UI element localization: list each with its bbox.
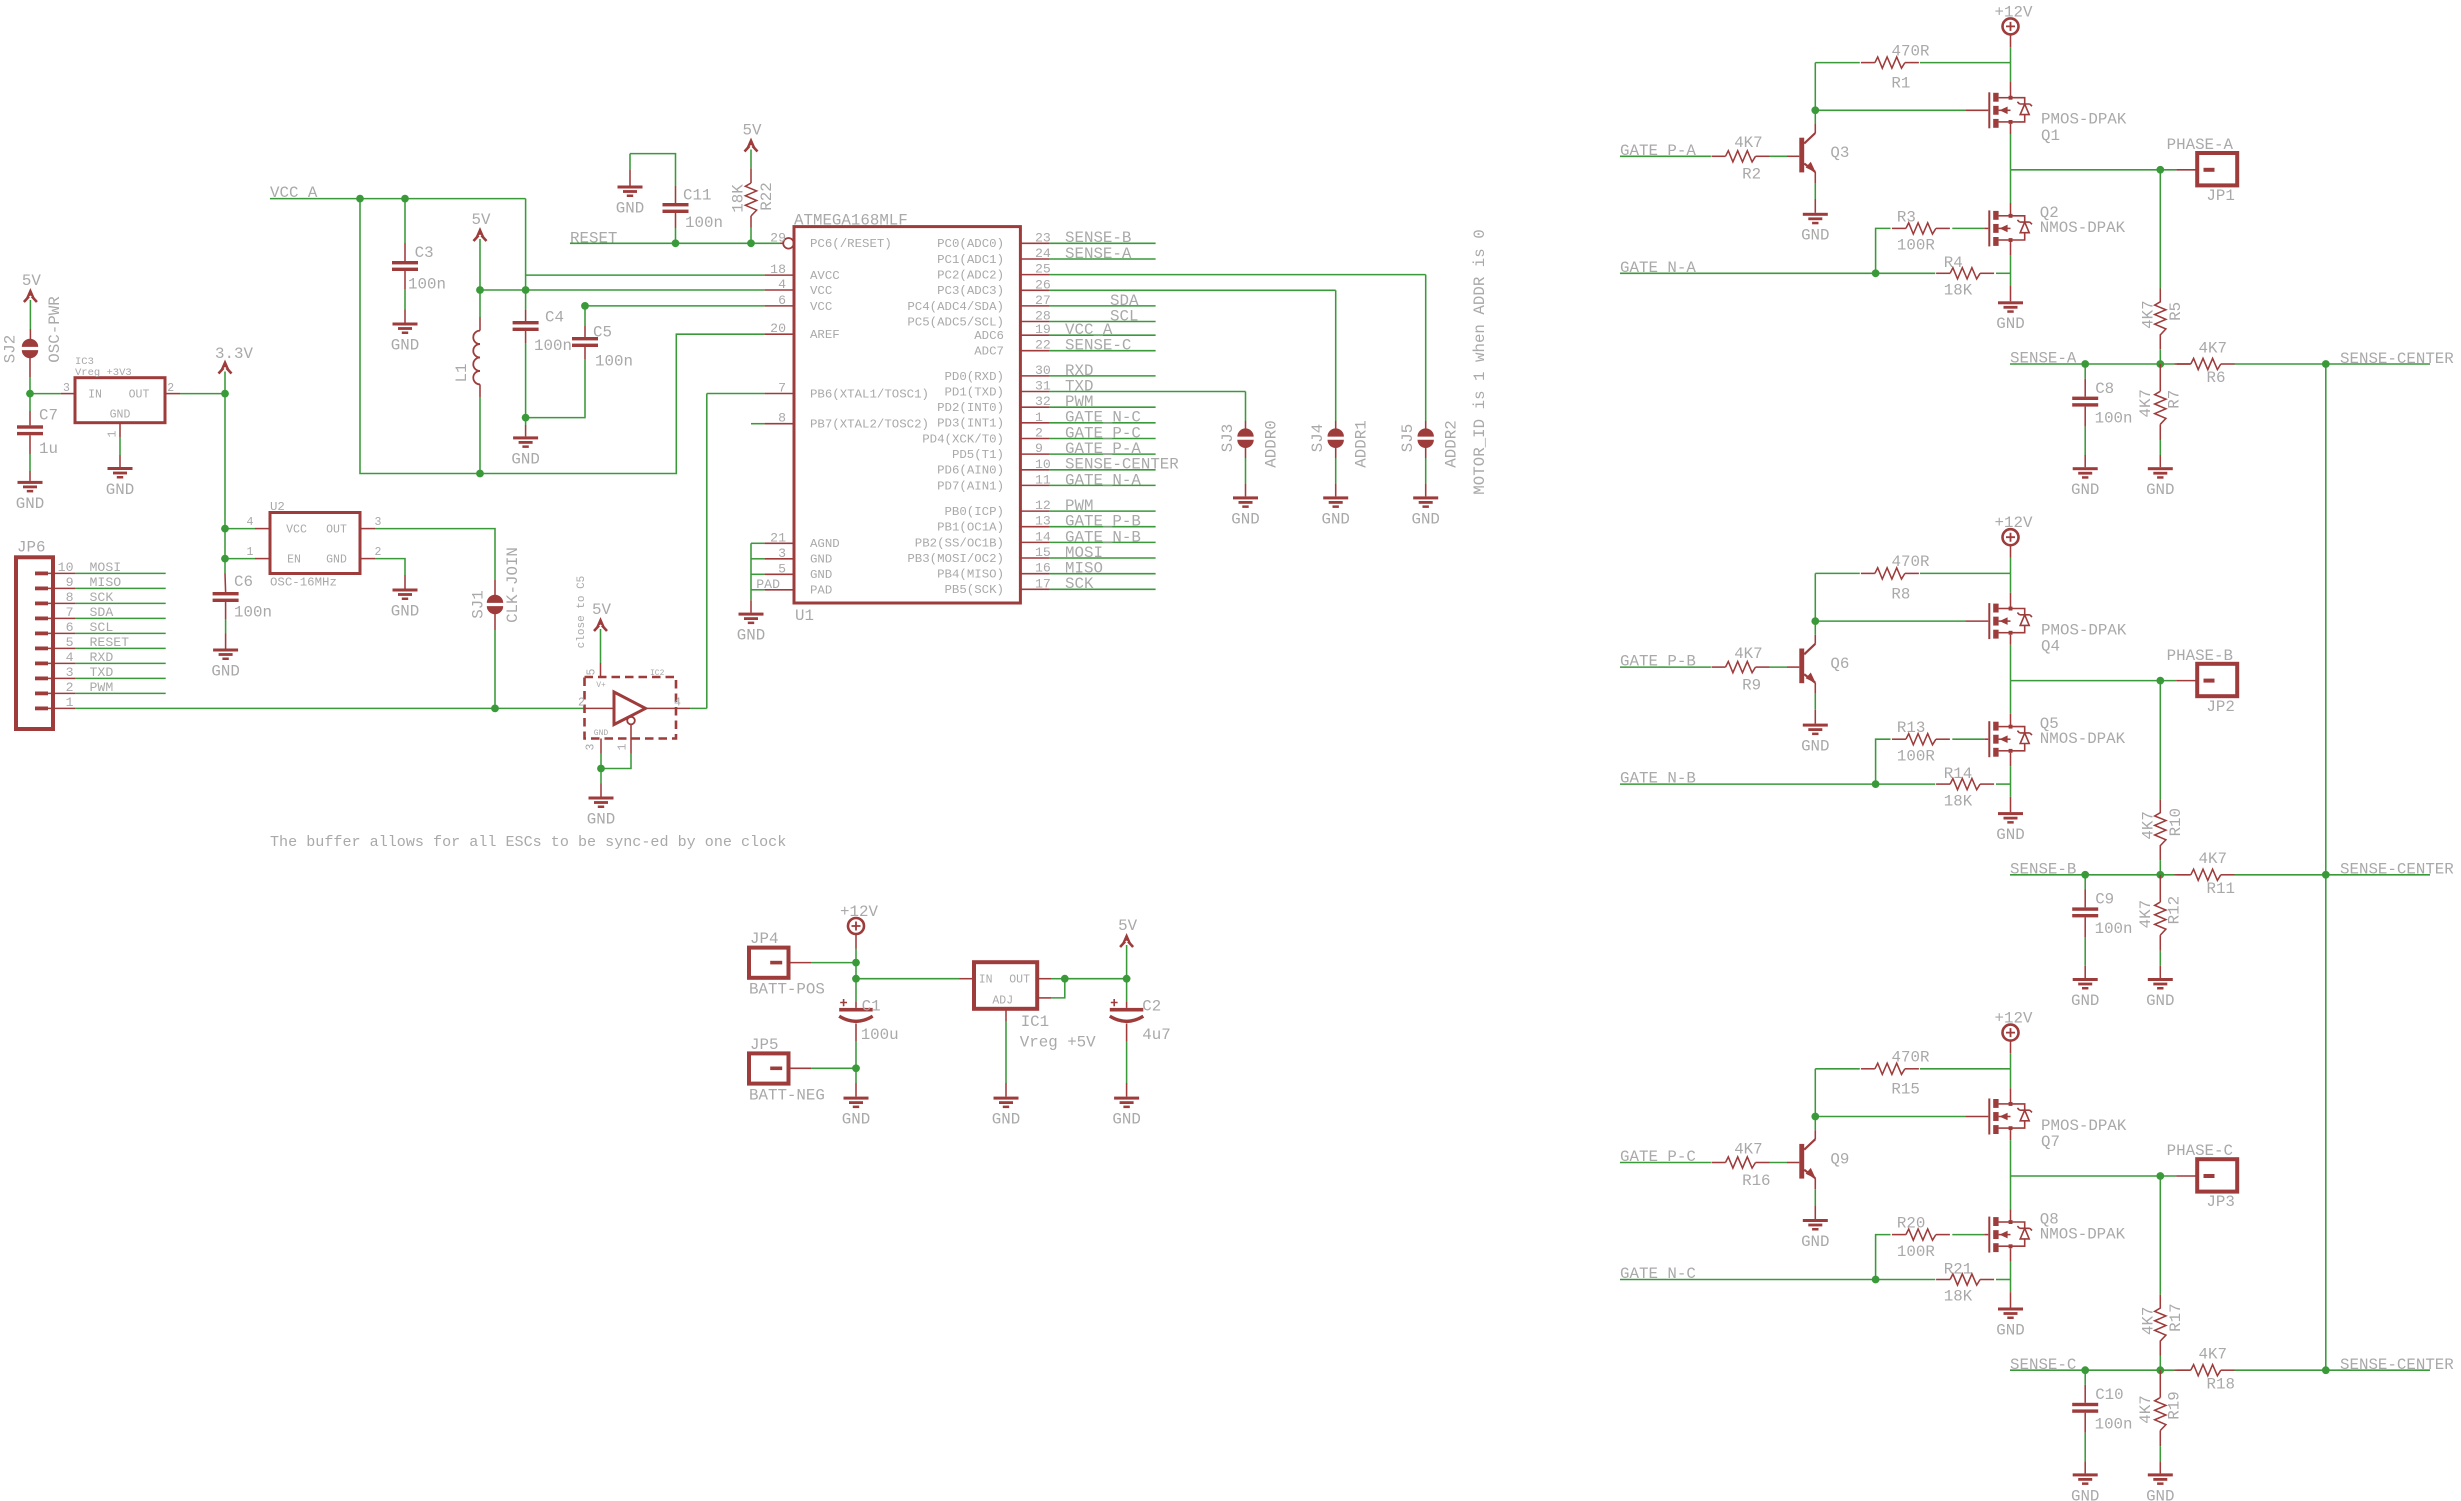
- svg-text:R3: R3: [1897, 208, 1916, 226]
- resistor R13 100R: [1906, 734, 1936, 745]
- wire R7 to ground: [2159, 424, 2161, 440]
- svg-text:GND: GND: [842, 1110, 870, 1128]
- wire R22 to RESET node: [750, 216, 752, 228]
- pin 23 stub: [1020, 242, 1049, 244]
- wire node to Q7 gate: [1815, 1116, 1965, 1118]
- solder jumper SJ3 ADDR0: [1237, 428, 1253, 436]
- wire 3.3V node to EN node: [224, 529, 226, 559]
- wire GATE_P-A to R2: [1620, 155, 1711, 157]
- wire IC1 OUT: [1037, 978, 1051, 980]
- svg-text:4: 4: [778, 277, 786, 292]
- pin 29 inverted circle: [783, 238, 794, 249]
- svg-text:4K7: 4K7: [2140, 811, 2158, 839]
- svg-text:PB1(OC1A): PB1(OC1A): [937, 521, 1004, 535]
- wire RESET net: [570, 242, 780, 244]
- wire pin 2 GATE_P-C: [1050, 438, 1156, 440]
- svg-text:PC2(ADC2): PC2(ADC2): [937, 269, 1004, 283]
- connector JP6: [16, 557, 53, 729]
- svg-text:The buffer allows for all ESCs: The buffer allows for all ESCs to be syn…: [270, 833, 786, 851]
- mosfet Q1 PMOS-DPAK: [1988, 92, 1990, 128]
- svg-text:BATT-NEG: BATT-NEG: [749, 1086, 825, 1104]
- svg-text:4K7: 4K7: [2137, 1395, 2155, 1423]
- wire R3 to Q2 gate: [1952, 227, 1984, 229]
- svg-text:SJ3: SJ3: [1219, 424, 1237, 452]
- pin 6 VCC stub: [765, 305, 794, 307]
- svg-text:EN: EN: [287, 554, 301, 567]
- ground C1: [844, 1097, 869, 1100]
- svg-text:R20: R20: [1897, 1215, 1925, 1233]
- svg-text:GND: GND: [1801, 227, 1829, 245]
- svg-text:SENSE-B: SENSE-B: [2010, 860, 2076, 878]
- svg-text:100n: 100n: [234, 603, 272, 621]
- resistor R16 4K7: [1726, 1157, 1756, 1168]
- capacitor C8 100n: [2084, 364, 2086, 379]
- svg-text:R4: R4: [1944, 254, 1963, 272]
- svg-text:2: 2: [1035, 425, 1043, 440]
- node R22/RESET: [747, 239, 755, 247]
- svg-text:R14: R14: [1944, 765, 1972, 783]
- wire GATE_N-A row: [1620, 272, 1935, 274]
- resistor R7 4K7 lower divider: [2159, 364, 2161, 391]
- svg-text:NMOS-DPAK: NMOS-DPAK: [2040, 730, 2126, 748]
- svg-text:OSC-16MHz: OSC-16MHz: [270, 576, 337, 590]
- wire Q2 drain to phase: [2010, 170, 2012, 203]
- wire IC1 GND pin to ground: [1005, 1009, 1007, 1022]
- wire C4 node to ground: [525, 418, 527, 425]
- connector JP4 BATT-POS: [749, 948, 789, 978]
- ground Q2: [1998, 301, 2023, 304]
- wire VCC_A down to AVCC: [525, 199, 527, 290]
- svg-text:PHASE-C: PHASE-C: [2167, 1142, 2233, 1160]
- transistor Q6: [1799, 649, 1804, 684]
- supply +12V (PHASE-A): [2003, 18, 2019, 34]
- wire R9 to base: [1769, 666, 1787, 668]
- svg-text:VCC: VCC: [286, 524, 307, 537]
- svg-text:470R: 470R: [1892, 553, 1930, 571]
- wire phase row PHASE-B: [2011, 680, 2161, 682]
- svg-text:PD3(INT1): PD3(INT1): [937, 417, 1004, 431]
- svg-text:17: 17: [1035, 576, 1051, 591]
- svg-text:GND: GND: [2146, 481, 2174, 499]
- svg-text:PC6(/RESET): PC6(/RESET): [810, 237, 892, 251]
- net label SENSE-CENTER (PHASE-C): [2326, 1369, 2430, 1371]
- capacitor C1 100u: [855, 979, 857, 1002]
- wire pin 1 GATE_N-C: [1050, 422, 1156, 424]
- wire C8 to ground: [2084, 407, 2086, 427]
- svg-text:PMOS-DPAK: PMOS-DPAK: [2041, 111, 2127, 129]
- wire Q4 drain to phase node: [2010, 635, 2012, 645]
- svg-text:SENSE-C: SENSE-C: [2010, 1356, 2076, 1374]
- resistor R21 18K: [1950, 1274, 1980, 1285]
- wire JP6 pin 3 TXD: [48, 677, 75, 679]
- svg-text:SENSE-CENTER: SENSE-CENTER: [2340, 350, 2454, 368]
- wire pin 10 SENSE-CENTER: [1050, 469, 1156, 471]
- svg-text:5V: 5V: [743, 121, 762, 139]
- pin 24 stub: [1020, 258, 1049, 260]
- wire +12V to JP4 node: [855, 934, 857, 949]
- svg-text:SJ4: SJ4: [1309, 424, 1327, 452]
- node OUT/ADJ: [1061, 975, 1069, 983]
- svg-text:SENSE-A: SENSE-A: [1065, 245, 1132, 263]
- svg-text:GND: GND: [2071, 481, 2099, 499]
- svg-text:PAD: PAD: [756, 577, 780, 592]
- supply 5V (OSC-PWR): [26, 288, 36, 299]
- svg-text:1: 1: [107, 430, 120, 437]
- wire pin 28 SCL: [1050, 321, 1156, 323]
- svg-text:100R: 100R: [1897, 237, 1935, 255]
- wire R18 to SENSE-CENTER: [2235, 1369, 2326, 1371]
- supply 5V (buffer): [596, 617, 606, 628]
- wire C6 to ground: [225, 602, 227, 619]
- svg-text:100R: 100R: [1897, 747, 1935, 765]
- pin 27 stub: [1020, 305, 1049, 307]
- svg-text:ADC7: ADC7: [974, 345, 1004, 359]
- resistor R4 18K: [1950, 268, 1980, 279]
- wire AVCC to pin 18: [526, 274, 765, 276]
- ground buffer: [589, 797, 614, 800]
- svg-text:JP6: JP6: [17, 538, 45, 556]
- svg-text:21: 21: [770, 530, 786, 545]
- wire to U2 pin 1: [225, 558, 255, 560]
- svg-text:C2: C2: [1142, 997, 1161, 1015]
- wire C2 to ground: [1126, 1024, 1128, 1042]
- pin 14 stub: [1020, 541, 1049, 543]
- wire SENSE-CENTER vertical bus: [2325, 364, 2327, 1370]
- svg-text:PB7(XTAL2/TOSC2): PB7(XTAL2/TOSC2): [810, 418, 929, 432]
- resistor R12 4K7 lower divider: [2159, 875, 2161, 902]
- svg-text:GND: GND: [326, 554, 347, 567]
- capacitor C4: [525, 290, 527, 310]
- svg-text:470R: 470R: [1892, 42, 1930, 60]
- svg-text:18: 18: [770, 262, 786, 277]
- net label SENSE-CENTER (PHASE-A): [2326, 363, 2430, 365]
- svg-text:C1: C1: [862, 997, 881, 1015]
- wire R13 to Q5 gate: [1952, 738, 1984, 740]
- wire buffer pin 1 feedback: [630, 724, 632, 753]
- svg-text:PHASE-B: PHASE-B: [2167, 647, 2233, 665]
- svg-text:V+: V+: [596, 681, 606, 690]
- svg-text:CLK-JOIN: CLK-JOIN: [504, 547, 522, 623]
- svg-text:SCK: SCK: [1065, 575, 1094, 593]
- pin 25 stub: [1020, 274, 1049, 276]
- svg-text:R15: R15: [1891, 1081, 1919, 1099]
- svg-text:C3: C3: [415, 244, 434, 262]
- svg-text:PD0(RXD): PD0(RXD): [945, 370, 1005, 384]
- svg-text:PB6(XTAL1/TOSC1): PB6(XTAL1/TOSC1): [810, 387, 929, 401]
- svg-text:PD4(XCK/T0): PD4(XCK/T0): [922, 432, 1004, 446]
- wire JP4 to node: [789, 962, 812, 964]
- node 3.3V: [221, 390, 229, 398]
- wire emitter to ground: [1814, 1178, 1816, 1189]
- wire Q5 source to ground: [2010, 753, 2012, 766]
- svg-text:JP3: JP3: [2206, 1193, 2234, 1211]
- svg-text:PB5(SCK): PB5(SCK): [945, 583, 1005, 597]
- svg-text:ADC6: ADC6: [974, 329, 1004, 343]
- svg-text:GND: GND: [737, 626, 765, 644]
- wire R5 to sense node: [2159, 334, 2161, 349]
- svg-text:R9: R9: [1742, 676, 1761, 694]
- svg-text:R6: R6: [2207, 369, 2226, 387]
- svg-text:100n: 100n: [534, 337, 572, 355]
- svg-text:AREF: AREF: [810, 328, 840, 342]
- wire C3 to ground: [404, 271, 406, 289]
- wire AGND group: [750, 543, 752, 600]
- svg-text:30: 30: [1035, 363, 1051, 378]
- pin 9 stub: [1020, 453, 1049, 455]
- svg-text:C6: C6: [234, 573, 253, 591]
- node SENSE-B / divider: [2156, 871, 2164, 879]
- svg-text:GND: GND: [1801, 737, 1829, 755]
- svg-text:R17: R17: [2167, 1303, 2185, 1331]
- svg-text:GND: GND: [2146, 1487, 2174, 1501]
- ground C3: [393, 323, 418, 326]
- resistor R18 4K7 to sense-center: [2175, 1369, 2191, 1371]
- ground SJ4: [1323, 496, 1348, 499]
- resistor R3 100R: [1906, 223, 1936, 234]
- wire VCC rail row: [480, 289, 765, 291]
- svg-text:JP4: JP4: [750, 930, 778, 948]
- ground SJ3: [1233, 496, 1258, 499]
- pin 17 stub: [1020, 588, 1049, 590]
- wire L1 to bottom rail: [479, 384, 481, 397]
- pin 2 stub: [1020, 438, 1049, 440]
- wire C7 to ground: [29, 435, 31, 454]
- capacitor C9 100n: [2084, 875, 2086, 890]
- node phase PHASE-A: [2156, 166, 2164, 174]
- svg-text:GND: GND: [110, 408, 131, 421]
- svg-text:Q7: Q7: [2041, 1133, 2060, 1151]
- ground SJ5: [1413, 496, 1438, 499]
- svg-text:2: 2: [578, 696, 585, 709]
- svg-text:R10: R10: [2167, 808, 2185, 836]
- wire SJ5 to ground: [1425, 446, 1427, 458]
- wire pin 13 GATE_P-B: [1050, 526, 1156, 528]
- node buffer ground: [597, 765, 605, 773]
- svg-text:16: 16: [1035, 561, 1051, 576]
- svg-text:ADDR1: ADDR1: [1353, 420, 1371, 467]
- wire SJ3 to ground: [1245, 446, 1247, 458]
- wire phase to JP3: [2160, 1175, 2176, 1177]
- wire OUT to 5V node: [1065, 978, 1127, 980]
- wire R2 to base: [1769, 155, 1787, 157]
- supply +12V (PHASE-C): [2003, 1025, 2019, 1041]
- solder jumper SJ1: [487, 595, 503, 603]
- wire pin 27 SDA: [1050, 305, 1156, 307]
- wire pin 26: [1050, 289, 1336, 291]
- svg-text:100u: 100u: [861, 1026, 899, 1044]
- wire JP6 pin 6 SCL: [48, 632, 75, 634]
- svg-text:Q3: Q3: [1830, 144, 1849, 162]
- wire AGND to ground: [750, 600, 752, 612]
- node C1/IN: [852, 975, 860, 983]
- svg-text:5V: 5V: [472, 211, 491, 229]
- ground C8: [2073, 467, 2098, 470]
- ground R7: [2148, 467, 2173, 470]
- svg-text:8: 8: [778, 411, 786, 426]
- wire buffer pin 3 GND: [600, 739, 602, 754]
- wire R6 to SENSE-CENTER: [2235, 363, 2326, 365]
- wire pin 22 SENSE-C: [1050, 350, 1156, 352]
- ground C2: [1114, 1097, 1139, 1100]
- wire R14 to source: [1996, 783, 2011, 785]
- capacitor C7: [29, 394, 31, 411]
- svg-text:R18: R18: [2207, 1375, 2235, 1393]
- svg-text:9: 9: [1035, 441, 1043, 456]
- svg-text:4K7: 4K7: [2137, 900, 2155, 928]
- svg-text:18K: 18K: [1944, 1288, 1973, 1306]
- svg-text:4K7: 4K7: [1734, 134, 1762, 152]
- svg-text:+12V: +12V: [840, 903, 878, 921]
- wire AREF rail: [360, 199, 765, 474]
- pin 15 stub: [1020, 557, 1049, 559]
- svg-text:GND: GND: [1996, 1321, 2024, 1339]
- node GATE_N-A / R3: [1872, 269, 1880, 277]
- node VCC_A / AREF rail: [356, 195, 364, 203]
- pin 22 stub: [1020, 350, 1049, 352]
- svg-text:Vreg +5V: Vreg +5V: [1020, 1033, 1096, 1051]
- node phase PHASE-B: [2156, 677, 2164, 685]
- ground Q8: [1998, 1308, 2023, 1311]
- node 5V/C2: [1123, 975, 1131, 983]
- ground Q6: [1803, 724, 1828, 727]
- svg-text:GND: GND: [2146, 992, 2174, 1010]
- node VCC2 / C5: [581, 302, 589, 310]
- wire +12V to Q7 source: [2010, 1041, 2012, 1054]
- ground R12: [2148, 978, 2173, 981]
- wire 3.3V rail down to U2: [224, 394, 226, 529]
- svg-text:R8: R8: [1891, 585, 1910, 603]
- wire buffer output up to PB6: [706, 394, 708, 709]
- ground U2: [393, 589, 418, 592]
- pin 11 stub: [1020, 484, 1049, 486]
- svg-text:ADJ: ADJ: [992, 994, 1013, 1007]
- pin 30 stub: [1020, 375, 1049, 377]
- resistor R2 4K7: [1726, 151, 1756, 162]
- svg-text:C11: C11: [683, 186, 711, 204]
- wire pin 15 MOSI: [1050, 557, 1156, 559]
- wire JP6 pin 1 clock net: [48, 707, 75, 709]
- svg-text:JP1: JP1: [2206, 187, 2234, 205]
- svg-text:25: 25: [1035, 262, 1051, 277]
- svg-text:PD1(TXD): PD1(TXD): [945, 385, 1005, 399]
- svg-text:5: 5: [778, 561, 786, 576]
- wire IC3 out to 3.3V node: [165, 393, 180, 395]
- svg-text:R1: R1: [1891, 74, 1910, 92]
- wire JP6 pin 5 RESET: [48, 647, 75, 649]
- svg-text:Q6: Q6: [1830, 655, 1849, 673]
- svg-text:SCL: SCL: [1110, 307, 1138, 325]
- pin 10 stub: [1020, 469, 1049, 471]
- node U2 EN: [221, 555, 229, 563]
- svg-text:24: 24: [1035, 246, 1051, 261]
- svg-text:SENSE-A: SENSE-A: [2010, 350, 2077, 368]
- svg-text:R12: R12: [2166, 896, 2184, 924]
- pin 12 stub: [1020, 510, 1049, 512]
- svg-text:4K7: 4K7: [1734, 645, 1762, 663]
- wire pin 19 VCC_A: [1050, 334, 1156, 336]
- wire node to IC3 pin 3: [30, 393, 61, 395]
- svg-text:GND: GND: [594, 729, 609, 738]
- svg-text:3.3V: 3.3V: [215, 345, 253, 363]
- wire 3.3V arrow to node: [224, 372, 226, 394]
- node VCC rail / C4: [522, 286, 530, 294]
- supply +12V (battery): [848, 918, 864, 934]
- svg-text:BATT-POS: BATT-POS: [749, 980, 825, 998]
- svg-text:+12V: +12V: [1995, 1009, 2033, 1027]
- node SENSE-C / C10: [2081, 1366, 2089, 1374]
- svg-text:3: 3: [63, 382, 70, 395]
- svg-text:R11: R11: [2207, 880, 2235, 898]
- net label SENSE-CENTER (PHASE-B): [2326, 874, 2430, 876]
- wire pin 31 TXD down: [1245, 392, 1247, 422]
- svg-text:GND: GND: [1996, 315, 2024, 333]
- svg-text:PD5(T1): PD5(T1): [952, 448, 1004, 462]
- svg-text:GATE_N-A: GATE_N-A: [1065, 471, 1141, 489]
- svg-text:GATE_N-A: GATE_N-A: [1620, 259, 1696, 277]
- resistor R22 18K: [745, 183, 756, 216]
- svg-text:GATE_P-C: GATE_P-C: [1620, 1148, 1696, 1166]
- svg-text:PD2(INT0): PD2(INT0): [937, 401, 1004, 415]
- svg-text:GND: GND: [1112, 1110, 1140, 1128]
- svg-text:IN: IN: [979, 973, 993, 986]
- svg-text:5: 5: [586, 668, 599, 675]
- svg-text:IC2: IC2: [650, 669, 665, 678]
- svg-text:R16: R16: [1742, 1172, 1770, 1190]
- ground IC1: [994, 1097, 1019, 1100]
- mosfet Q8 NMOS-DPAK: [1988, 1217, 1990, 1253]
- wire phase to JP1: [2160, 169, 2176, 171]
- svg-text:10: 10: [1035, 457, 1051, 472]
- svg-text:6: 6: [778, 293, 786, 308]
- svg-text:C7: C7: [39, 406, 58, 424]
- svg-text:R2: R2: [1742, 166, 1761, 184]
- svg-text:R5: R5: [2167, 302, 2185, 321]
- svg-text:5V: 5V: [22, 272, 41, 290]
- wire C1 to JP5 node: [855, 1024, 857, 1042]
- node C4/C5 ground tie: [522, 414, 530, 422]
- svg-text:PHASE-A: PHASE-A: [2167, 136, 2234, 154]
- svg-text:GND: GND: [391, 602, 419, 620]
- svg-text:PC5(ADC5/SCL): PC5(ADC5/SCL): [907, 315, 1004, 329]
- svg-text:GND: GND: [211, 662, 239, 680]
- wire collector to node: [1814, 635, 1816, 644]
- svg-text:SJ1: SJ1: [470, 590, 488, 618]
- svg-text:22: 22: [1035, 338, 1051, 353]
- svg-text:GATE_N-B: GATE_N-B: [1620, 770, 1696, 788]
- svg-text:Q1: Q1: [2041, 127, 2060, 145]
- svg-text:3: 3: [375, 516, 382, 529]
- svg-text:R22: R22: [758, 182, 776, 210]
- wire emitter to ground: [1814, 172, 1816, 183]
- mosfet Q4 PMOS-DPAK: [1988, 603, 1990, 639]
- pin 13 stub: [1020, 526, 1049, 528]
- connector JP2 PHASE-B: [2197, 664, 2237, 696]
- svg-text:IC1: IC1: [1021, 1013, 1049, 1031]
- solder jumper SJ4 ADDR1: [1328, 428, 1344, 436]
- svg-text:GND: GND: [810, 568, 832, 582]
- svg-text:4K7: 4K7: [2140, 1307, 2158, 1335]
- connector JP5 BATT-NEG: [749, 1053, 789, 1083]
- wire JP6 pin 2 PWM: [48, 692, 75, 694]
- wire buffer output: [646, 707, 691, 709]
- wire Q8 drain to phase: [2010, 1176, 2012, 1209]
- ground Q5: [1998, 812, 2023, 815]
- svg-text:PC3(ADC3): PC3(ADC3): [937, 284, 1004, 298]
- wire JP5 to node: [789, 1067, 812, 1069]
- node JP4/+12V: [852, 959, 860, 967]
- svg-text:100n: 100n: [2095, 409, 2133, 427]
- wire pin 14 GATE_N-B: [1050, 541, 1156, 543]
